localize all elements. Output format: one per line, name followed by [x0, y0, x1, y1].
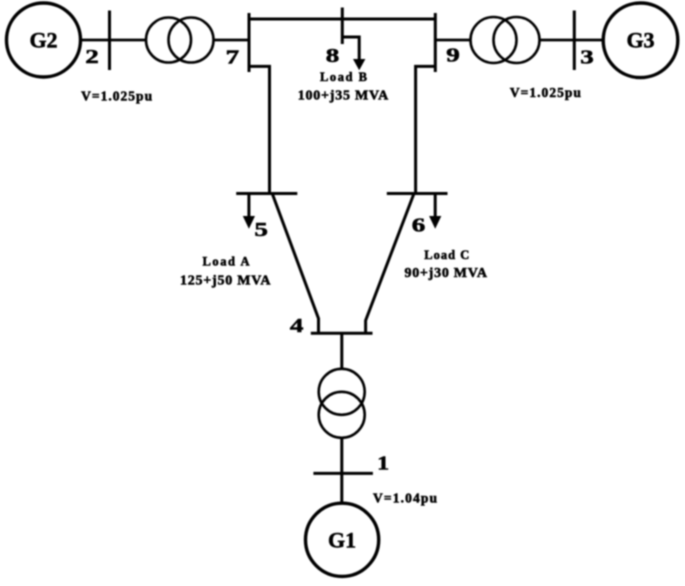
svg-text:90+j30 MVA: 90+j30 MVA	[404, 266, 487, 281]
svg-text:V=1.025pu: V=1.025pu	[510, 85, 581, 100]
svg-text:V=1.04pu: V=1.04pu	[373, 491, 437, 506]
svg-text:G1: G1	[328, 528, 356, 553]
svg-text:V=1.025pu: V=1.025pu	[81, 89, 152, 104]
svg-text:Load C: Load C	[424, 248, 469, 262]
svg-text:8: 8	[326, 45, 340, 67]
svg-text:100+j35 MVA: 100+j35 MVA	[298, 89, 389, 104]
svg-text:125+j50 MVA: 125+j50 MVA	[180, 274, 271, 289]
svg-text:9: 9	[446, 45, 460, 67]
svg-text:7: 7	[226, 47, 240, 69]
svg-text:1: 1	[377, 453, 389, 475]
svg-text:4: 4	[290, 315, 304, 337]
svg-text:2: 2	[85, 46, 99, 68]
svg-text:6: 6	[412, 215, 426, 237]
svg-text:G2: G2	[29, 28, 57, 53]
svg-text:Load A: Load A	[203, 255, 250, 269]
svg-text:G3: G3	[626, 28, 654, 53]
svg-text:5: 5	[254, 219, 268, 241]
svg-text:Load B: Load B	[320, 70, 367, 84]
svg-text:3: 3	[580, 47, 594, 69]
